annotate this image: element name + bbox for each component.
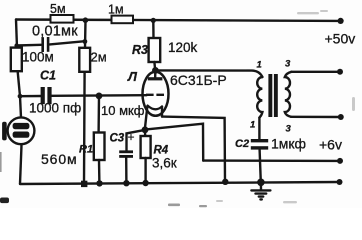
wire C2 bottom lead: [260, 150, 261, 183]
wire ground rail: [20, 182, 339, 184]
node cathode junction J1: [142, 126, 149, 133]
node filament ground junction: [222, 179, 228, 185]
resistor 2м: [79, 48, 106, 72]
wire mic bottom lead: [20, 144, 22, 183]
svg-text:+6v: +6v: [319, 137, 342, 153]
wire C3 top lead: [127, 130, 144, 150]
node ground junction: [257, 179, 265, 187]
svg-text:C3: C3: [110, 133, 125, 145]
wire grid line (C1 to tube grid): [20, 95, 147, 96]
svg-text:1000 пф: 1000 пф: [29, 101, 81, 116]
svg-text:1: 1: [250, 120, 255, 131]
scan artifact marks: [0, 152, 207, 207]
svg-text:6С31Б-Р: 6С31Б-Р: [170, 72, 227, 88]
tube U1 6С31Б-Р: [127, 69, 227, 130]
anode plate: [148, 77, 163, 80]
wire C3 bottom lead: [125, 158, 128, 183]
node R3 rail junction: [151, 18, 156, 23]
wire R4 bottom lead: [144, 158, 146, 183]
node R1 rail junction: [96, 180, 102, 186]
scan artifact bottom-left: [0, 198, 9, 204]
svg-text:5м: 5м: [50, 2, 66, 16]
resistor R1: [79, 133, 105, 161]
node 2м top rail junction: [83, 17, 89, 23]
svg-text:1м: 1м: [108, 3, 124, 17]
node 2м rail junction: [81, 181, 87, 187]
wire anode to transformer primary: [156, 70, 262, 77]
node divider left: [14, 43, 18, 47]
wire R1 bottom lead: [98, 160, 101, 183]
svg-text:0,01мк: 0,01мк: [32, 24, 78, 40]
wire filament right lead: [161, 107, 163, 117]
svg-text:2м: 2м: [91, 50, 107, 65]
wire top +50v rail: [16, 20, 340, 21]
resistor 5м: [50, 2, 74, 23]
capacitor C2: [235, 136, 306, 152]
grid (dashed): [146, 94, 154, 96]
svg-text:R3: R3: [132, 43, 148, 57]
node rail end: [337, 179, 343, 185]
svg-text:+: +: [128, 130, 135, 144]
svg-text:120k: 120k: [168, 40, 198, 55]
svg-text:R1: R1: [79, 144, 93, 156]
transformer T1 secondary winding: [285, 72, 292, 117]
node secondary top terminal: [337, 69, 343, 75]
node C1 input junction: [18, 94, 23, 99]
node C3 rail junction: [123, 180, 129, 186]
wire filament left to +6v (B): [146, 124, 203, 161]
tube envelope: [143, 72, 169, 116]
wire anode lead: [154, 70, 157, 77]
svg-text:1: 1: [257, 60, 262, 71]
node R4 rail junction: [142, 180, 148, 186]
transformer T1 primary winding: [257, 77, 262, 118]
wire primary bottom lead: [258, 118, 260, 139]
wire 0,01мк branch right: [50, 41, 85, 44]
wire filament left lead: [145, 106, 148, 130]
wire 2м column: [84, 20, 86, 183]
svg-text:+50v: +50v: [325, 31, 356, 47]
capacitor C1: [40, 69, 56, 105]
svg-text:3,6к: 3,6к: [152, 156, 177, 171]
scan artifact speckles: [216, 10, 355, 203]
resistor R4: [141, 136, 177, 171]
wire 0,01мк branch left: [17, 44, 42, 47]
svg-text:C2: C2: [235, 138, 249, 150]
node grid/R1 junction: [96, 93, 103, 100]
svg-text:560м: 560м: [41, 151, 78, 167]
wire +6v rail: [203, 159, 340, 162]
capacitor 0,01мк: [32, 24, 78, 53]
node +50v terminal: [338, 18, 344, 24]
microphone M1: [2, 117, 34, 144]
ground symbol: [251, 182, 270, 199]
svg-text:Л: Л: [127, 69, 138, 84]
resistor 100м: [11, 48, 54, 72]
svg-text:C1: C1: [40, 69, 56, 83]
wire R3 bottom lead: [153, 62, 156, 70]
wire left vertical (input column): [16, 20, 21, 118]
capacitor C3: [110, 130, 135, 158]
svg-text:3: 3: [285, 59, 291, 70]
node +6v terminal: [337, 158, 343, 164]
wire R4 top lead: [144, 130, 147, 136]
resistor 1м: [108, 3, 133, 24]
svg-text:3: 3: [286, 124, 292, 135]
node divider right: [83, 39, 88, 44]
node secondary bottom terminal: [338, 114, 344, 120]
wire R1 top lead: [97, 96, 100, 133]
filament: [148, 106, 162, 110]
resistor R3: [132, 38, 198, 62]
wire secondary bottom output: [291, 116, 339, 119]
wire R3 top lead: [152, 20, 155, 38]
svg-text:10 мкф: 10 мкф: [101, 103, 145, 118]
svg-text:1мкф: 1мкф: [271, 136, 306, 152]
transformer core: [268, 74, 277, 117]
wire secondary top output: [291, 71, 338, 73]
node anode junction: [152, 67, 159, 74]
wire filament right to ground (A): [162, 117, 225, 182]
